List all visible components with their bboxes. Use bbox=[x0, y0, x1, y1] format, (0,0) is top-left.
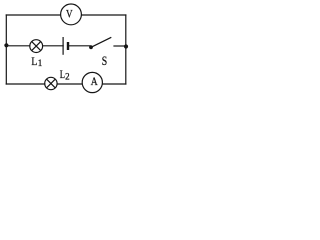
svg-text:1: 1 bbox=[38, 58, 43, 68]
svg-text:2: 2 bbox=[65, 72, 70, 82]
wire middle: switch to right node bbox=[114, 45, 126, 47]
wire bottom: lamp L2 to ammeter bbox=[57, 83, 82, 85]
svg-text:L: L bbox=[31, 54, 37, 68]
wire middle: lamp L1 to battery bbox=[43, 45, 63, 47]
junction node right bbox=[124, 44, 128, 48]
ammeter A bbox=[82, 72, 102, 92]
junction node left bbox=[4, 43, 8, 47]
label L1 bbox=[31, 54, 42, 68]
battery B1 bbox=[63, 37, 68, 55]
wire left vertical bbox=[5, 15, 7, 84]
svg-text:V: V bbox=[66, 7, 73, 21]
wire top-right segment bbox=[81, 14, 125, 16]
wire middle: battery to switch bbox=[69, 45, 91, 47]
wire right vertical bbox=[125, 15, 127, 84]
lamp L1 bbox=[30, 40, 43, 53]
wire bottom-right segment bbox=[102, 83, 126, 85]
wire middle: left node to lamp L1 bbox=[6, 45, 30, 47]
wire top-left segment bbox=[6, 14, 60, 16]
wire bottom-left segment bbox=[6, 83, 45, 85]
lamp L2 bbox=[45, 77, 57, 89]
switch S bbox=[89, 37, 111, 49]
label L2 bbox=[60, 67, 70, 82]
voltmeter V bbox=[61, 4, 82, 25]
svg-text:S: S bbox=[102, 54, 108, 68]
svg-text:A: A bbox=[91, 76, 99, 88]
